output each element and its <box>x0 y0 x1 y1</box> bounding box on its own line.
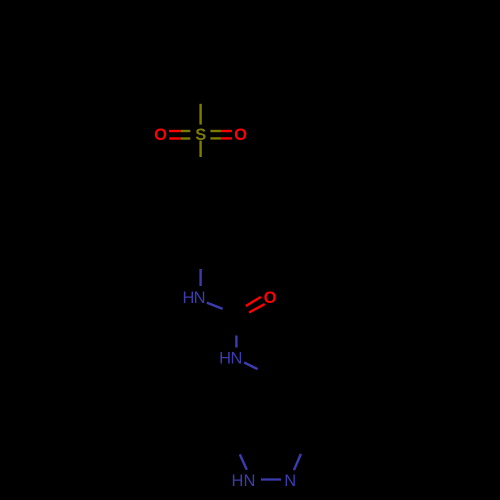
wire S=O left double bond line 2 olive half <box>181 137 191 139</box>
wire S=O right double bond line 2 red half <box>221 137 232 139</box>
wire S=O left double bond line 1 olive half <box>181 130 191 132</box>
svg-text:O: O <box>154 126 167 144</box>
wire C=O double bond line 1 red half <box>246 297 261 306</box>
wire pyrazole N1-C5 bond blue half <box>240 454 247 469</box>
wire bond N2-CH2 black half <box>258 369 272 376</box>
wire pyrazole N1-N2 bond <box>261 478 281 480</box>
wire S=O right double bond line 1 olive half <box>210 130 221 132</box>
wire bond S-C1 upper half (olive, S side) <box>199 141 201 157</box>
wire bond CH2-S upper half (black) <box>199 82 201 104</box>
wire bond CH2-C4(pyrazole) black <box>270 376 272 417</box>
wire ethyl C-C bond (black, invisible) <box>201 45 228 82</box>
svg-text:N: N <box>230 350 242 368</box>
wire S=O left double bond line 1 red half <box>169 130 181 132</box>
svg-text:O: O <box>234 126 247 144</box>
wire bond S-C1 lower half (black) <box>199 157 201 181</box>
wire bond N1-C(urea) black half <box>223 309 237 315</box>
wire bond CH2-S lower half (olive, S side) <box>199 104 201 125</box>
svg-text:N: N <box>284 472 296 490</box>
wire bond N1-C(urea) blue half <box>207 303 223 309</box>
wire bond C(urea)-N2 lower half (blue) <box>235 336 237 348</box>
wire S=O right double bond line 2 olive half <box>210 137 221 139</box>
svg-text:O: O <box>264 289 277 307</box>
svg-text:H: H <box>219 350 231 368</box>
svg-text:H: H <box>182 289 194 307</box>
wire S=O left double bond line 2 red half <box>169 137 181 139</box>
wire benzene ring (black, invisible) <box>161 181 240 244</box>
wire pyrazole ring carbons (black) <box>238 417 304 441</box>
svg-text:H: H <box>232 472 244 490</box>
wire bond C4-N lower half (blue, N side) <box>199 269 201 286</box>
wire bond C4-N upper half (black) <box>199 244 201 270</box>
svg-text:N: N <box>194 289 206 307</box>
wire C=O double bond line 2 red half <box>249 304 265 312</box>
wire bond N2-CH2 blue half <box>244 363 258 370</box>
svg-text:S: S <box>195 126 206 144</box>
wire bond C(urea)-N2 upper half (black) <box>235 315 237 336</box>
wire S=O right double bond line 1 red half <box>221 130 232 132</box>
wire pyrazole N2=C3 bond blue half <box>294 454 301 470</box>
svg-text:N: N <box>244 472 256 490</box>
